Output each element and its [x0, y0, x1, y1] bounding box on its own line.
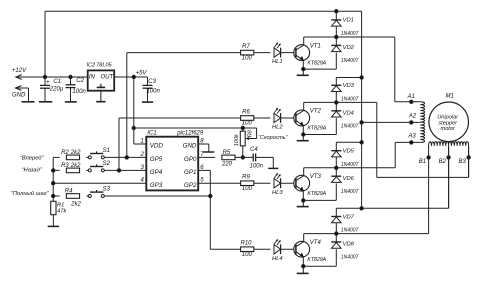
svg-text:100n: 100n	[250, 164, 264, 170]
svg-text:VD3: VD3	[343, 83, 355, 89]
svg-text:pic12f629: pic12f629	[176, 130, 204, 136]
svg-text:+5V: +5V	[136, 70, 148, 76]
svg-text:2k2: 2k2	[70, 163, 81, 169]
svg-text:VD8: VD8	[343, 242, 355, 248]
svg-text:R8: R8	[247, 129, 253, 137]
svg-text:R3: R3	[61, 163, 69, 169]
svg-text:M1: M1	[446, 93, 454, 99]
svg-text:+: +	[46, 79, 50, 86]
svg-text:GP5: GP5	[150, 156, 163, 163]
svg-text:100k: 100k	[234, 133, 240, 146]
svg-text:VD5: VD5	[343, 149, 355, 155]
svg-text:“Назад”: “Назад”	[22, 167, 43, 173]
svg-text:1N4007: 1N4007	[341, 162, 359, 168]
svg-text:VT2: VT2	[310, 109, 322, 115]
svg-text:B3: B3	[459, 159, 467, 165]
svg-text:VD4: VD4	[343, 111, 354, 117]
svg-text:IC2: IC2	[86, 63, 96, 69]
svg-text:C2: C2	[76, 78, 84, 84]
svg-text:KT829A: KT829A	[307, 126, 326, 132]
svg-text:“Полный шаг”: “Полный шаг”	[11, 190, 50, 197]
svg-text:2k2: 2k2	[70, 201, 81, 207]
svg-text:GND: GND	[183, 143, 197, 150]
svg-text:S3: S3	[103, 187, 111, 193]
svg-text:100: 100	[242, 121, 253, 127]
svg-text:R10: R10	[240, 241, 252, 247]
svg-text:IC1: IC1	[147, 130, 156, 136]
svg-text:1N4007: 1N4007	[341, 228, 359, 234]
svg-text:1N4007: 1N4007	[341, 189, 359, 195]
svg-text:R6: R6	[242, 109, 250, 115]
svg-text:1N4007: 1N4007	[341, 123, 359, 129]
svg-text:KT829A: KT829A	[307, 257, 326, 263]
svg-text:100: 100	[242, 252, 253, 258]
svg-text:1: 1	[140, 139, 143, 145]
svg-text:VD2: VD2	[343, 45, 355, 51]
svg-text:220µ: 220µ	[49, 86, 64, 92]
svg-text:GP3: GP3	[150, 182, 163, 189]
svg-text:B2: B2	[439, 159, 447, 165]
svg-text:B1: B1	[419, 159, 426, 165]
svg-text:1N4007: 1N4007	[341, 255, 359, 261]
svg-text:R2: R2	[61, 150, 69, 156]
svg-text:2: 2	[139, 152, 144, 158]
svg-text:R7: R7	[242, 44, 250, 50]
svg-text:S2: S2	[103, 161, 111, 167]
svg-text:VT3: VT3	[310, 174, 322, 180]
svg-text:C4: C4	[250, 147, 258, 153]
svg-text:1N4007: 1N4007	[341, 58, 359, 64]
svg-text:1N4007: 1N4007	[341, 31, 359, 37]
svg-text:A3: A3	[407, 134, 416, 140]
svg-text:VDD: VDD	[150, 143, 164, 150]
svg-text:GP4: GP4	[150, 169, 163, 176]
svg-text:HL4: HL4	[272, 256, 283, 262]
svg-text:HL3: HL3	[272, 190, 283, 196]
svg-text:S1: S1	[103, 148, 110, 154]
svg-text:GP2: GP2	[184, 182, 197, 189]
svg-text:1N4007: 1N4007	[341, 96, 359, 102]
svg-text:220: 220	[221, 161, 233, 167]
svg-text:KT829A: KT829A	[307, 60, 326, 66]
svg-text:78L05: 78L05	[96, 63, 112, 69]
svg-text:100n: 100n	[147, 88, 161, 94]
svg-text:100: 100	[242, 186, 253, 192]
svg-text:R4: R4	[65, 189, 73, 195]
svg-text:R9: R9	[242, 175, 250, 181]
svg-text:GND: GND	[12, 92, 26, 98]
svg-text:C3: C3	[148, 79, 156, 85]
svg-text:GP0: GP0	[184, 156, 197, 163]
svg-text:VD1: VD1	[343, 18, 354, 24]
svg-text:VT1: VT1	[310, 43, 321, 49]
svg-text:VD7: VD7	[343, 214, 355, 220]
svg-text:2k2: 2k2	[70, 150, 81, 156]
svg-text:GP1: GP1	[184, 169, 196, 176]
svg-text:+12V: +12V	[12, 68, 27, 74]
svg-text:HL1: HL1	[272, 59, 283, 65]
svg-text:A2: A2	[408, 114, 417, 120]
svg-text:A1: A1	[407, 94, 415, 100]
svg-text:KT829A: KT829A	[307, 191, 326, 197]
svg-text:100n: 100n	[72, 89, 86, 95]
svg-text:100: 100	[242, 55, 253, 61]
svg-text:47k: 47k	[57, 208, 67, 214]
svg-text:“Скорость”: “Скорость”	[258, 135, 287, 141]
svg-text:VD6: VD6	[343, 176, 355, 182]
svg-text:motor: motor	[441, 126, 456, 132]
svg-text:OUT: OUT	[101, 74, 115, 80]
svg-text:R5: R5	[223, 150, 231, 156]
svg-text:HL2: HL2	[272, 125, 283, 131]
svg-text:IN: IN	[89, 74, 96, 80]
svg-text:VT4: VT4	[310, 240, 322, 246]
svg-text:“Вперед”: “Вперед”	[20, 155, 45, 161]
svg-text:C1: C1	[53, 79, 61, 85]
